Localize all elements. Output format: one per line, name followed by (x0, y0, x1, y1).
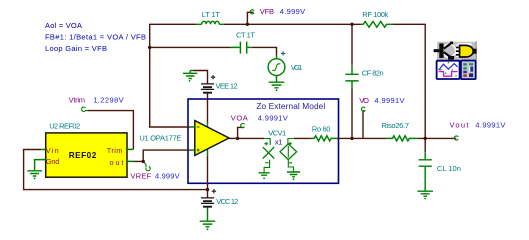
svg-text:4.999V: 4.999V (280, 7, 306, 16)
svg-text:VREF: VREF (130, 172, 151, 181)
svg-text:Vout: Vout (450, 121, 470, 130)
svg-text:VO: VO (359, 96, 369, 105)
svg-text:Riso26.7: Riso26.7 (382, 121, 410, 130)
svg-text:Gnd: Gnd (46, 157, 59, 166)
svg-text:4.9991V: 4.9991V (475, 121, 505, 130)
svg-text:CF 82n: CF 82n (362, 68, 384, 77)
svg-text:FB#1: 1/Beta1 = VOA / VFB: FB#1: 1/Beta1 = VOA / VFB (45, 33, 146, 42)
svg-text:VOA: VOA (231, 113, 248, 122)
svg-text:LT 1T: LT 1T (202, 10, 220, 19)
svg-text:VEE 12: VEE 12 (216, 82, 238, 91)
svg-text:VCC 12: VCC 12 (216, 197, 238, 206)
svg-text:U1 OPA177E: U1 OPA177E (139, 133, 181, 142)
svg-text:Loop Gain = VFB: Loop Gain = VFB (45, 44, 107, 53)
svg-text:CL 10n: CL 10n (437, 164, 461, 173)
svg-text:4.9991V: 4.9991V (258, 113, 288, 122)
svg-text:4.9991V: 4.9991V (375, 96, 405, 105)
svg-text:Aol = VOA: Aol = VOA (45, 21, 82, 30)
svg-text:Trim: Trim (107, 146, 123, 155)
svg-text:4.999V: 4.999V (155, 172, 180, 181)
svg-text:out: out (110, 158, 124, 167)
svg-text:1.2298V: 1.2298V (93, 96, 124, 105)
svg-text:RF 100k: RF 100k (362, 10, 388, 19)
svg-text:CT 1T: CT 1T (236, 31, 255, 40)
svg-text:Vin: Vin (46, 146, 59, 155)
svg-text:VG1: VG1 (291, 63, 303, 72)
svg-text:VFB: VFB (260, 7, 274, 16)
svg-text:Vtrim: Vtrim (69, 96, 85, 105)
svg-text:Ro 60: Ro 60 (312, 124, 331, 133)
svg-text:x1: x1 (275, 137, 283, 146)
svg-text:VCV1: VCV1 (268, 128, 286, 137)
svg-text:REF02: REF02 (69, 151, 97, 160)
svg-text:U2 REF02: U2 REF02 (49, 122, 80, 131)
svg-text:Zo External Model: Zo External Model (256, 101, 325, 111)
